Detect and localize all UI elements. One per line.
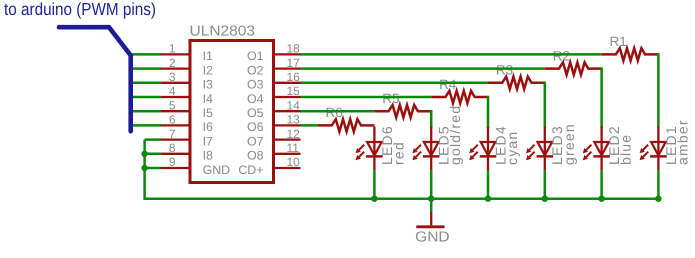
svg-text:I8: I8: [203, 149, 213, 163]
LED LED4 (cyan): [469, 127, 496, 171]
svg-text:R5: R5: [382, 91, 399, 106]
svg-text:12: 12: [287, 127, 301, 141]
svg-text:I4: I4: [203, 92, 213, 106]
pin 14 (O5) stub: [273, 110, 301, 112]
svg-text:ULN2803: ULN2803: [190, 24, 256, 40]
svg-text:14: 14: [287, 98, 301, 112]
svg-text:13: 13: [287, 113, 301, 127]
bus to arduino: [59, 27, 131, 131]
svg-text:4: 4: [169, 84, 176, 98]
svg-text:I5: I5: [203, 106, 213, 120]
svg-text:O3: O3: [247, 78, 264, 92]
svg-text:green: green: [561, 123, 577, 165]
svg-text:O8: O8: [247, 149, 264, 163]
svg-text:R6: R6: [326, 105, 343, 120]
pin 11 (O8) stub: [273, 153, 301, 155]
resistor R6: [318, 119, 375, 131]
pin 1 (I1) stub: [161, 53, 190, 55]
svg-text:gold/red: gold/red: [447, 105, 463, 165]
svg-text:I6: I6: [203, 120, 213, 134]
resistor R2: [545, 62, 602, 74]
pin 2 (I2) stub: [161, 67, 190, 69]
resistor R3: [488, 77, 545, 89]
svg-text:R1: R1: [610, 34, 627, 49]
svg-text:amber: amber: [674, 119, 690, 165]
wire O2 pin 17 to R2: [301, 67, 545, 70]
wire LED3 cathode to gnd bus: [544, 170, 547, 198]
svg-text:red: red: [390, 141, 406, 165]
wire O3 pin 16 to R3: [301, 82, 489, 85]
LED LED6 (red): [356, 127, 383, 171]
svg-text:5: 5: [169, 98, 176, 112]
junction pin9/gnd rail: [141, 165, 147, 171]
ground symbol GND: [416, 212, 444, 227]
wire bus to pin 1: [129, 53, 162, 56]
junction LED3/gnd bus: [542, 196, 548, 202]
wire bus to pin 2: [129, 67, 162, 70]
svg-text:3: 3: [169, 70, 176, 84]
wire LED5 cathode to gnd bus: [430, 170, 433, 198]
wire bus to pin 5: [129, 110, 162, 113]
wire R1 down to LED1: [657, 54, 660, 127]
junction LED2/gnd bus: [598, 196, 604, 202]
svg-text:O4: O4: [247, 92, 264, 106]
LED LED3 (green): [526, 127, 553, 171]
wire pin 9 to gnd rail: [145, 167, 161, 170]
svg-text:R2: R2: [553, 48, 570, 63]
svg-text:R4: R4: [439, 77, 457, 92]
svg-text:I1: I1: [203, 49, 213, 63]
svg-text:15: 15: [287, 84, 301, 98]
junction pin8/gnd rail: [141, 151, 147, 157]
svg-text:CD+: CD+: [238, 163, 263, 177]
svg-text:GND: GND: [203, 163, 231, 177]
wire R3 down to LED3: [544, 83, 547, 127]
svg-text:O6: O6: [247, 120, 264, 134]
svg-text:blue: blue: [618, 134, 634, 165]
svg-text:O7: O7: [247, 134, 264, 148]
svg-text:I3: I3: [203, 78, 213, 92]
pin 9 (GND) stub: [161, 167, 190, 169]
svg-text:O5: O5: [247, 106, 264, 120]
IC U1 ULN2803 body: [190, 41, 274, 183]
svg-text:to arduino (PWM pins): to arduino (PWM pins): [4, 0, 156, 19]
wire O6 pin 13 to R6: [301, 124, 318, 127]
resistor R4: [431, 91, 488, 103]
pin 5 (I5) stub: [161, 110, 190, 112]
resistor R1: [602, 48, 659, 60]
junction LED4/gnd bus: [485, 196, 491, 202]
svg-text:I7: I7: [203, 134, 213, 148]
svg-text:O2: O2: [247, 63, 264, 77]
svg-text:I2: I2: [203, 63, 213, 77]
resistor R5: [374, 105, 431, 117]
wire O4 pin 15 to R4: [301, 96, 432, 99]
wire LED2 cathode to gnd bus: [600, 170, 603, 198]
svg-text:16: 16: [287, 70, 301, 84]
wire pin 8 to gnd rail: [145, 153, 161, 156]
pin 18 (O1) stub: [273, 53, 301, 55]
svg-text:cyan: cyan: [504, 131, 520, 165]
wire LED6 cathode to gnd bus: [373, 170, 376, 198]
pin 3 (I3) stub: [161, 82, 190, 84]
wire LED4 cathode to gnd bus: [487, 170, 490, 198]
svg-text:GND: GND: [415, 229, 450, 245]
pin 16 (O3) stub: [273, 82, 301, 84]
pin 8 (I8) stub: [161, 153, 190, 155]
junction LED1/gnd bus: [655, 196, 661, 202]
wire R5 down to LED5: [430, 111, 433, 127]
junction LED6/gnd bus: [371, 196, 377, 202]
wire bus to pin 4: [129, 96, 162, 99]
wire pin 7 to gnd rail: [145, 138, 161, 141]
pin 7 (I7) stub: [161, 138, 190, 140]
wire R4 down to LED4: [487, 97, 490, 127]
wire LED1 cathode to gnd bus: [657, 170, 660, 198]
svg-text:O1: O1: [247, 49, 264, 63]
wire bus to pin 6: [129, 124, 162, 127]
pin 13 (O6) stub: [273, 124, 301, 126]
svg-text:8: 8: [169, 141, 176, 155]
wire gnd rail vertical left + gnd bus bottom: [145, 140, 659, 199]
svg-text:10: 10: [287, 155, 301, 169]
svg-text:11: 11: [287, 141, 300, 155]
pin 17 (O2) stub: [273, 67, 301, 69]
svg-text:1: 1: [169, 42, 176, 56]
svg-text:R3: R3: [496, 63, 513, 78]
pin 10 (CD+) stub: [273, 167, 301, 169]
pin 15 (O4) stub: [273, 96, 301, 98]
pin 6 (I6) stub: [161, 124, 190, 126]
svg-text:7: 7: [169, 127, 176, 141]
wire gnd stub: [430, 199, 433, 212]
wire O1 pin 18 to R1: [301, 53, 602, 56]
svg-text:17: 17: [287, 56, 301, 70]
wire O5 pin 14 to R5: [301, 110, 375, 113]
pin 12 (O7) stub: [273, 138, 301, 140]
svg-text:6: 6: [169, 113, 176, 127]
wire R2 down to LED2: [600, 69, 603, 127]
svg-text:2: 2: [169, 56, 176, 70]
pin 4 (I4) stub: [161, 96, 190, 98]
LED LED5 (gold/red): [412, 127, 439, 171]
LED LED1 (amber): [640, 127, 667, 171]
LED LED2 (blue): [583, 127, 610, 171]
wire bus to pin 3: [129, 82, 162, 85]
svg-text:18: 18: [287, 42, 301, 56]
junction LED5/gnd bus: [428, 196, 434, 202]
svg-text:9: 9: [169, 155, 176, 169]
